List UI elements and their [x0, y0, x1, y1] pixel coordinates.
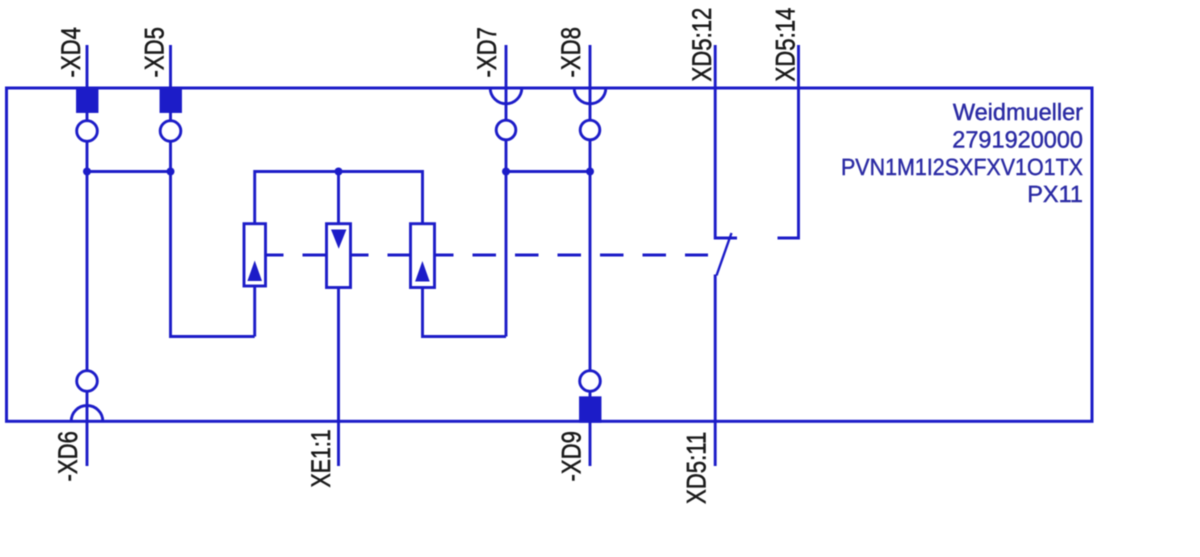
plug circle -XD8	[580, 120, 600, 140]
svg-text:XE1:1: XE1:1	[306, 429, 336, 487]
arrow up in arrester A3	[415, 261, 430, 282]
svg-text:XD5:12: XD5:12	[687, 8, 717, 82]
wire arrester A2 bottom to XE1:1	[337, 288, 340, 467]
svg-text:XD5:14: XD5:14	[771, 8, 801, 82]
dashed mechanical link line	[260, 254, 708, 257]
svg-text:-XD9: -XD9	[557, 431, 587, 481]
junction dot at XD5 net	[167, 168, 175, 176]
wire stub terminal -XD7 top	[505, 45, 508, 120]
wire XD5:11 common down	[714, 275, 717, 467]
wire net top of arresters	[255, 172, 423, 224]
socket arc -XD6	[71, 406, 103, 422]
svg-text:2791920000: 2791920000	[952, 127, 1083, 153]
wire arrester A1 bottom	[253, 286, 256, 337]
wire -XD7 down	[505, 140, 508, 337]
wire net XD4-XD5 horizontal	[87, 170, 171, 173]
junction dot at XD8 net	[586, 168, 594, 176]
plug circle -XD6	[77, 371, 98, 392]
wire -XD4 down to -XD6	[86, 141, 89, 371]
border frame of device box	[7, 88, 1093, 421]
svg-text:-XD5: -XD5	[140, 27, 170, 77]
socket arc -XD8	[574, 88, 606, 104]
wire arrester A2 top	[337, 172, 340, 224]
surge arrester A1 body	[244, 224, 266, 286]
plug circle -XD9	[580, 371, 601, 392]
wire arrester A3 bottom then right to -XD7	[423, 288, 507, 337]
svg-text:-XD6: -XD6	[53, 431, 83, 481]
wire -XD6 through border	[86, 391, 89, 466]
wire stub terminal -XD5 top	[169, 45, 172, 121]
svg-text:-XD7: -XD7	[472, 27, 502, 77]
wire -XD5 down then right to arrester A1	[171, 141, 255, 336]
svg-text:-XD8: -XD8	[556, 27, 586, 77]
svg-text:Weidmueller: Weidmueller	[953, 99, 1083, 125]
wire stub terminal XD5:14	[778, 45, 799, 238]
svg-text:PX11: PX11	[1027, 181, 1083, 207]
wire stub terminal -XD8 top	[589, 45, 592, 120]
wire -XD8 down to -XD9	[589, 140, 592, 371]
socket arc -XD7	[490, 88, 522, 104]
wire -XD9 stub bottom	[589, 391, 592, 466]
svg-text:-XD4: -XD4	[56, 27, 86, 77]
junction dot arrester A2 top	[335, 168, 343, 176]
terminal block square -XD4	[78, 88, 98, 112]
terminal block square -XD9	[581, 398, 601, 422]
wire net XD7-XD8 horizontal	[506, 170, 590, 173]
arrow up in arrester A1	[247, 261, 262, 282]
switch blade contact XD5	[717, 233, 732, 276]
terminal block square -XD5	[161, 88, 181, 112]
junction dot at XD4 net	[83, 168, 91, 176]
wire stub terminal XD5:12	[715, 45, 737, 238]
plug circle -XD7	[496, 120, 516, 140]
arrow down in arrester A2	[331, 230, 346, 249]
svg-text:PVN1M1I2SXFXV1O1TX: PVN1M1I2SXFXV1O1TX	[841, 154, 1083, 180]
junction dot at XD7 net	[502, 168, 510, 176]
surge arrester A2 body	[327, 224, 351, 288]
wire stub terminal -XD4 top	[86, 45, 89, 121]
svg-text:XD5:11: XD5:11	[682, 432, 712, 504]
plug circle -XD5	[160, 121, 181, 142]
plug circle -XD4	[77, 121, 98, 142]
surge arrester A3 body	[411, 224, 435, 288]
